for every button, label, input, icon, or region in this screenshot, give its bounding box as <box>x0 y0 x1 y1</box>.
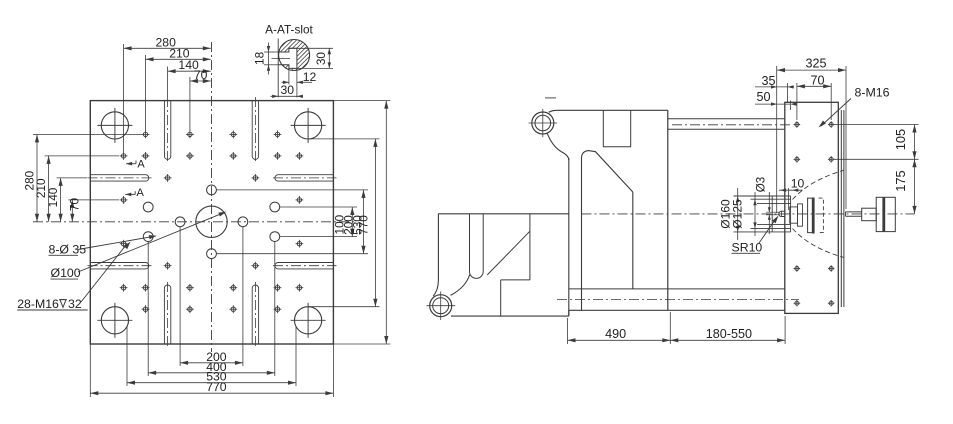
platen horizontal centerline <box>33 221 357 223</box>
T-slot profile outline <box>278 48 297 68</box>
svg-text:140: 140 <box>46 187 60 207</box>
lower arm left edge down to ring <box>433 214 438 296</box>
square notch in upper block <box>603 110 630 147</box>
dimension 530 bottom <box>127 382 296 384</box>
rail top line <box>569 288 785 290</box>
dimension 770 bottom <box>90 392 333 394</box>
svg-text:490: 490 <box>605 327 626 341</box>
dimension 180-550 <box>784 316 786 344</box>
svg-text:30: 30 <box>314 52 328 66</box>
ejector plate thick bar <box>812 198 815 234</box>
upper arm sweep curve <box>547 133 569 160</box>
dimension 770 right <box>385 101 387 344</box>
upper arm top edge <box>549 110 668 112</box>
nozzle extension vertical (x=776.7) <box>776 66 778 213</box>
svg-text:180-550: 180-550 <box>706 327 752 341</box>
detail face/extension line <box>277 39 279 98</box>
bottom extension lines <box>179 227 181 366</box>
rod nut <box>862 208 877 221</box>
svg-text:30: 30 <box>281 83 295 97</box>
dimension 100 right <box>351 207 353 237</box>
T-slots (4) double lines with rounded ends and centerlines <box>164 101 170 160</box>
svg-text:32: 32 <box>68 297 82 311</box>
dimension 140 left <box>60 178 62 222</box>
dimension 490 <box>567 318 569 344</box>
dimension 30 (depth, bottom) <box>271 95 304 97</box>
knob <box>876 197 895 231</box>
left extension lines <box>33 133 142 135</box>
svg-text:Ø100: Ø100 <box>51 266 81 280</box>
8 ejector holes D35 <box>207 185 217 195</box>
section arrow A (upper) <box>126 163 136 165</box>
dimension 325 top <box>777 69 846 71</box>
dimension 200 bottom <box>180 362 243 364</box>
nozzle tip SR10 <box>779 211 785 216</box>
dimension 30 (wide width, right) <box>289 47 333 49</box>
dimension 530 right <box>374 139 376 307</box>
right extension lines <box>216 189 368 191</box>
svg-text:18: 18 <box>253 51 267 65</box>
frame right edge vertical <box>667 110 669 310</box>
svg-text:70: 70 <box>68 198 82 212</box>
svg-text:175: 175 <box>893 170 908 191</box>
dimension 140 top <box>168 70 211 72</box>
dimension 12 <box>288 65 290 85</box>
svg-text:A: A <box>137 159 145 171</box>
dimension 18 (neck width) <box>264 51 278 53</box>
lower arm top edge (at centerline) <box>438 213 568 215</box>
svg-text:12: 12 <box>303 70 317 84</box>
svg-text:105: 105 <box>893 129 908 150</box>
platen side view rectangle <box>785 102 839 313</box>
rail centerline <box>557 299 799 301</box>
tie bar bottom line <box>668 128 785 130</box>
svg-text:28-M16: 28-M16 <box>17 297 59 311</box>
svg-text:770: 770 <box>357 215 371 235</box>
dimension 70 left <box>71 200 73 222</box>
tick above upper ring <box>545 97 556 99</box>
section arrow A (lower) <box>125 193 135 195</box>
frame column left edge <box>568 158 570 316</box>
main horizontal centerline (right view) <box>582 213 915 215</box>
corner guide holes with crosshairs <box>101 112 128 139</box>
svg-text:A: A <box>137 187 145 199</box>
dimension 280 left <box>36 134 38 221</box>
slot centerline tick <box>272 57 291 59</box>
rail bottom line <box>569 309 785 311</box>
dimension 200 right <box>363 190 365 254</box>
locating recess on platen face <box>734 195 791 197</box>
central hole D100 <box>196 206 227 237</box>
dimension 400 bottom <box>148 372 275 374</box>
inner vertical below gusset <box>632 192 634 289</box>
svg-text:A-AT-slot: A-AT-slot <box>265 23 313 37</box>
platen vertical centerline <box>211 42 213 352</box>
upper eye ring <box>532 112 554 134</box>
platen front view outline <box>90 101 333 344</box>
svg-text:70: 70 <box>810 74 824 88</box>
top extension lines <box>123 44 125 152</box>
svg-text:Ø3: Ø3 <box>755 177 768 192</box>
lower neck slot <box>470 214 484 279</box>
lower gusset <box>529 214 531 231</box>
frame base bottom edge <box>451 315 569 317</box>
platen back lines <box>840 110 842 307</box>
dimension 70 top <box>190 80 211 82</box>
lower step <box>501 279 530 281</box>
frame column right edge with hump <box>582 151 633 311</box>
adjusting rod <box>846 211 862 213</box>
phantom dashed curves <box>793 170 845 199</box>
ejector bracket solid <box>808 198 813 233</box>
lower sweep into ring <box>451 275 470 296</box>
dimensions 105 and 175 right <box>834 124 919 126</box>
dimension 210 top <box>146 58 211 60</box>
28 M16 tapped holes <box>143 132 147 136</box>
dimension 210 left <box>48 156 50 222</box>
svg-text:8-M16: 8-M16 <box>854 86 889 100</box>
8 M16 holes on side platen <box>795 123 799 127</box>
small blocks behind face <box>790 207 798 223</box>
svg-text:70: 70 <box>194 68 208 82</box>
ejector bracket dashed <box>819 198 824 233</box>
dimension 280 top <box>124 47 211 49</box>
tie bar top line <box>668 118 785 120</box>
svg-text:770: 770 <box>206 380 227 394</box>
svg-text:50: 50 <box>756 90 770 104</box>
lower eye ring <box>430 295 452 317</box>
svg-text:10: 10 <box>791 176 805 190</box>
tie bar centerline <box>672 124 790 126</box>
svg-text:Ø125: Ø125 <box>731 199 745 229</box>
svg-text:SR10: SR10 <box>732 240 763 254</box>
svg-text:325: 325 <box>805 57 826 71</box>
